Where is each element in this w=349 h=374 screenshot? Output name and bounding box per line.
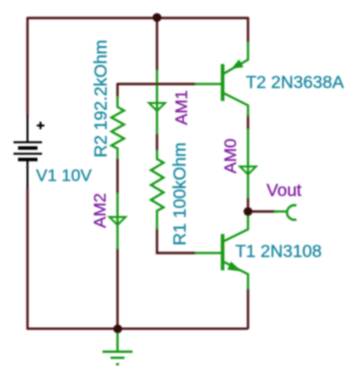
ammeter AM2 body wire bbox=[116, 193, 118, 249]
ground symbol stem bbox=[116, 332, 118, 352]
wire AM0 bottom to Vout node bbox=[247, 197, 249, 211]
svg-text:T1 2N3108: T1 2N3108 bbox=[235, 241, 322, 261]
wire base rail from R2 corner to T2 base lead bbox=[118, 83, 197, 85]
transistor T2 base lead (green) bbox=[195, 83, 221, 85]
node junction top (battery+/AM1/T2 emitter) bbox=[153, 13, 162, 22]
svg-text:AM2: AM2 bbox=[91, 193, 110, 228]
wire AM2 bottom to ground node bbox=[116, 248, 118, 329]
ammeter AM0 arrow triangle bbox=[240, 167, 256, 175]
wire Vout node to output terminal bbox=[248, 210, 276, 212]
node junction bottom ground bbox=[113, 325, 122, 334]
battery V1 positive lead bbox=[27, 115, 29, 142]
wire left vertical from battery - terminal to bottom rail bbox=[26, 187, 28, 329]
wire top rail from battery + to T2 emitter corner bbox=[28, 17, 249, 19]
battery V1 plus sign bbox=[37, 122, 45, 130]
svg-text:R2 192.2kOhm: R2 192.2kOhm bbox=[91, 40, 111, 158]
resistor R2 192.2kOhm leads and zigzag bbox=[112, 97, 125, 159]
wire right vertical top rail corner down to T2 emitter lead bbox=[247, 17, 249, 43]
svg-text:AM0: AM0 bbox=[221, 139, 240, 174]
battery V1 plate long thin (positive cell 2) bbox=[14, 153, 43, 155]
svg-text:T2 2N3638A: T2 2N3638A bbox=[246, 72, 345, 92]
wire green stub to Vout terminal bbox=[274, 210, 288, 212]
svg-text:AM1: AM1 bbox=[172, 90, 191, 125]
wire left vertical from top rail to battery + terminal bbox=[26, 17, 28, 116]
wire T1 emitter lead to bottom rail bbox=[247, 288, 249, 329]
svg-text:V1 10V: V1 10V bbox=[36, 166, 92, 185]
wire R1 bottom to T1 base: vertical then horizontal bbox=[157, 228, 196, 253]
battery V1 plate short thick (negative) bbox=[18, 146, 38, 150]
transistor T1 collector diagonal and vertical to Vout node bbox=[223, 211, 248, 241]
transistor T2 base bar bbox=[221, 64, 225, 101]
transistor T1 base lead (green) bbox=[195, 252, 221, 254]
battery V1 terminal dot bbox=[26, 166, 29, 169]
transistor T1 emitter diagonal and vertical bbox=[223, 262, 248, 289]
ground symbol bar 1 bbox=[103, 351, 133, 353]
ammeter AM1 body wire bbox=[156, 70, 158, 134]
battery V1 negative lead bbox=[27, 161, 29, 188]
wire bottom rail from battery - to T1 emitter bbox=[27, 328, 249, 330]
ground symbol bar 2 bbox=[111, 357, 125, 359]
transistor T2 emitter arrow (PNP, pointing to base) bbox=[231, 59, 243, 68]
transistor T2 collector diagonal bbox=[223, 93, 248, 116]
transistor T1 base bar bbox=[221, 234, 225, 270]
node junction Vout bbox=[244, 207, 253, 216]
svg-text:Vout: Vout bbox=[267, 180, 302, 200]
output terminal Vout open circle bbox=[287, 205, 296, 220]
wire R2 top: from base rail down to R2 bbox=[116, 83, 118, 97]
transistor T2 emitter diagonal and vertical bbox=[224, 42, 249, 74]
wire T2 collector to AM0 top bbox=[247, 114, 249, 130]
resistor R1 100kOhm leads and zigzag bbox=[151, 150, 164, 229]
ground symbol bar 3 (dot) bbox=[116, 363, 119, 365]
wire top node to AM1 top bbox=[156, 17, 158, 71]
ammeter AM2 arrow triangle bbox=[110, 217, 126, 225]
battery V1 plate long thin (positive) bbox=[14, 141, 43, 143]
transistor T1 emitter arrow (NPN, pointing out) bbox=[227, 262, 242, 272]
wire AM1 bottom to R1 top bbox=[156, 133, 158, 151]
battery V1 plate short thick (negative cell 2) bbox=[18, 158, 38, 162]
ammeter AM0 body wire bbox=[247, 129, 249, 198]
ammeter AM1 arrow triangle bbox=[149, 103, 165, 111]
wire R2 bottom to AM2 top bbox=[116, 158, 118, 194]
svg-text:R1 100kOhm: R1 100kOhm bbox=[170, 142, 190, 245]
